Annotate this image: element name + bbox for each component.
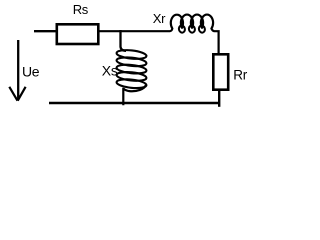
svg-text:Rr: Rr bbox=[233, 68, 247, 83]
svg-text:Xs: Xs bbox=[102, 63, 118, 79]
svg-text:Ue: Ue bbox=[22, 64, 40, 80]
svg-text:Rs: Rs bbox=[73, 2, 89, 17]
svg-text:Xr: Xr bbox=[153, 11, 166, 26]
